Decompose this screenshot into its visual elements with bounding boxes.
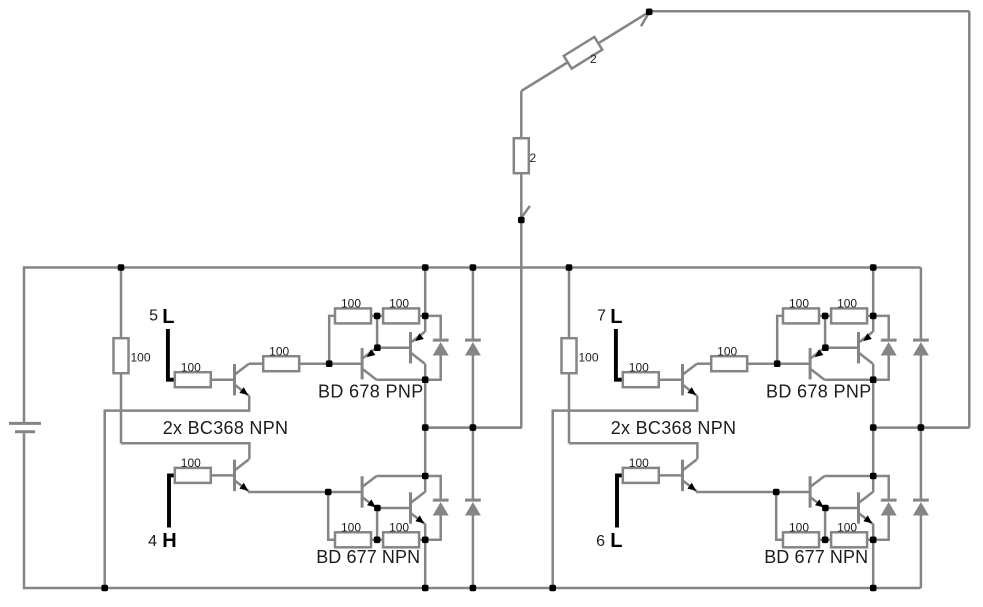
transistor Q1 BC368 NPN top driver right bbox=[683, 364, 697, 396]
wire output vertical mid right bbox=[872, 380, 875, 476]
wire input resistor to Q1 base left bbox=[211, 378, 233, 381]
wire diode D4 line upper right bbox=[920, 428, 923, 499]
node R-R junction BD678 left bbox=[374, 313, 381, 320]
wire BD677 resistor joint right bbox=[819, 539, 831, 542]
svg-text:L: L bbox=[610, 530, 622, 552]
wire diode D2 line lower right bbox=[920, 355, 923, 427]
transistor Q2 BC368 NPN bottom driver right bbox=[683, 459, 697, 491]
wire output mid line right block bbox=[873, 426, 969, 429]
wire Q1 emitter return right bbox=[553, 396, 698, 589]
wire BD678 base node riser right bbox=[777, 316, 783, 364]
wire motor branch vertical upper bbox=[520, 91, 523, 138]
diode D1 right bbox=[881, 340, 897, 355]
wire QD collector riser right bbox=[872, 476, 875, 492]
transistor QC BD677 NPN driver left bbox=[362, 476, 376, 508]
node QB emitter junction right bbox=[870, 313, 877, 320]
wire QA base wire right bbox=[777, 362, 809, 365]
node bottom rail output junction left bbox=[422, 585, 429, 592]
wire output vertical bottom left bbox=[424, 540, 427, 588]
diode D1 left bbox=[433, 340, 449, 355]
svg-text:BD 677 NPN: BD 677 NPN bbox=[764, 547, 868, 567]
wire diode D1 bottom link left bbox=[425, 355, 441, 379]
svg-text:100: 100 bbox=[579, 350, 599, 364]
wire left bias to Q2 collector bbox=[121, 443, 249, 459]
battery V1 positive plate bbox=[9, 422, 41, 425]
wire BD678 right resistor to rail line left bbox=[419, 315, 425, 318]
wire diode D1 bottom link right bbox=[873, 355, 889, 379]
resistor 100 input top right bbox=[623, 361, 659, 388]
node motor branch lower bbox=[518, 217, 525, 224]
svg-text:H: H bbox=[162, 530, 176, 552]
wire Q2 emitter to BD677 base node right bbox=[697, 490, 776, 493]
wire battery bottom lead bbox=[23, 433, 26, 589]
resistor 100 input top left bbox=[175, 361, 211, 388]
wire diode D4 line lower left bbox=[472, 515, 475, 588]
wire BD677 mid node riser left bbox=[376, 508, 379, 540]
wire diode D3 bottom link left bbox=[425, 515, 441, 540]
node QC collector junction right bbox=[870, 473, 877, 480]
diode D3 right bbox=[881, 500, 897, 515]
transistor Q2 BC368 NPN bottom driver left bbox=[235, 459, 249, 491]
wire motor branch right vertical bbox=[968, 11, 971, 427]
node QC collector junction left bbox=[422, 473, 429, 480]
wire diode D3 top link right bbox=[873, 476, 889, 499]
input stub bottom left bbox=[169, 475, 176, 527]
wire battery top lead bbox=[23, 266, 26, 422]
diode D4 right bbox=[913, 500, 929, 515]
resistor 2 (diagonal, motor branch) bbox=[564, 37, 603, 69]
node motor branch top bbox=[646, 9, 653, 16]
node bottom rail emitter-return junction left bbox=[101, 585, 108, 592]
node R-R junction BD678 right bbox=[822, 313, 829, 320]
wire diode D2 line upper right bbox=[920, 268, 923, 339]
svg-text:100: 100 bbox=[389, 521, 409, 535]
resistor 100 BD678 right right bbox=[831, 297, 867, 324]
wire bottom supply rail bbox=[24, 587, 921, 590]
node rail-bias junction right bbox=[566, 264, 573, 271]
svg-text:6: 6 bbox=[596, 533, 605, 550]
svg-text:2: 2 bbox=[530, 151, 537, 165]
wire output vertical mid left bbox=[424, 380, 427, 476]
resistor 100 BD678 left left bbox=[335, 297, 371, 324]
transistor QB BD678 PNP output right bbox=[859, 332, 873, 364]
diode D2 left bbox=[465, 340, 481, 355]
resistor 100 bias left bbox=[114, 338, 151, 373]
wire BD677 resistor joint left bbox=[371, 539, 383, 542]
wire QA collector run right bbox=[825, 378, 874, 381]
resistor 100 bias right bbox=[562, 338, 599, 373]
battery V1 negative plate bbox=[15, 430, 35, 433]
wire BD678 right resistor to rail line right bbox=[867, 315, 873, 318]
node QC base junction left bbox=[325, 489, 332, 496]
resistor 100 collector right bbox=[711, 345, 747, 372]
svg-text:100: 100 bbox=[389, 297, 409, 311]
wire input resistor to Q1 base right bbox=[659, 378, 681, 381]
wire QA collector run left bbox=[377, 378, 426, 381]
wire BD677 base node drop left bbox=[328, 492, 335, 540]
wire Q1 collector link right bbox=[697, 362, 711, 365]
svg-text:4: 4 bbox=[148, 533, 157, 550]
wire QC base wire left bbox=[328, 491, 361, 494]
node rail-output junction right bbox=[870, 264, 877, 271]
resistor 100 collector left bbox=[263, 345, 299, 372]
resistor 100 input bottom left bbox=[175, 456, 211, 483]
wire left rail to bias resistor bbox=[120, 268, 123, 339]
wire top horizontal to motor branch bbox=[649, 10, 969, 13]
wire diode D3 bottom link right bbox=[873, 515, 889, 540]
svg-text:100: 100 bbox=[717, 345, 737, 359]
wire QD base wire right bbox=[825, 507, 857, 510]
wire BD677 base node drop right bbox=[776, 492, 783, 540]
resistor 100 BD677 right right bbox=[831, 521, 867, 548]
svg-text:5: 5 bbox=[149, 308, 158, 325]
resistor 100 input bottom right bbox=[623, 456, 659, 483]
svg-text:L: L bbox=[610, 306, 622, 328]
wire QD collector riser left bbox=[424, 476, 427, 492]
wire diode D2 line lower left bbox=[472, 355, 475, 427]
wire output mid line left block bbox=[425, 426, 522, 429]
node R-R junction BD677 right bbox=[822, 537, 829, 544]
node QC emitter junction right bbox=[822, 505, 829, 512]
svg-text:2x BC368 NPN: 2x BC368 NPN bbox=[611, 418, 737, 438]
transistor QA BD678 PNP driver right bbox=[810, 348, 824, 380]
wire Q1 collector link left bbox=[249, 362, 263, 365]
switch lever at lower node bbox=[522, 206, 530, 217]
wire top supply rail bbox=[24, 266, 921, 269]
wire motor branch vertical middle bbox=[520, 173, 523, 220]
wire BD677 right resistor to node left bbox=[419, 539, 425, 542]
wire QB emitter riser right bbox=[872, 316, 875, 332]
node QA emitter junction right bbox=[822, 344, 829, 351]
svg-text:100: 100 bbox=[789, 297, 809, 311]
wire output vertical rail to QB right bbox=[872, 268, 875, 316]
wire QB base wire left bbox=[377, 346, 409, 349]
wire BD678 resistor joint right bbox=[819, 315, 831, 318]
diode D4 left bbox=[465, 500, 481, 515]
wire input resistor to Q2 base right bbox=[659, 474, 681, 477]
wire output vertical rail to QB left bbox=[424, 268, 427, 316]
resistor 2 (vertical, motor branch) bbox=[514, 138, 529, 173]
node QC emitter junction left bbox=[374, 505, 381, 512]
node bottom rail output junction right bbox=[870, 585, 877, 592]
wire BD678 mid node to QA emitter node left bbox=[376, 316, 379, 348]
svg-text:100: 100 bbox=[629, 361, 649, 375]
wire QB collector drop left bbox=[424, 364, 427, 380]
node QA emitter junction left bbox=[374, 344, 381, 351]
resistor 100 BD678 left right bbox=[783, 297, 819, 324]
wire diode D4 line lower right bbox=[920, 515, 923, 588]
wire right bias resistor down bbox=[568, 373, 571, 444]
diode D2 right bbox=[913, 340, 929, 355]
wire QA base wire left bbox=[329, 362, 361, 365]
svg-text:BD 677 NPN: BD 677 NPN bbox=[316, 547, 420, 567]
wire motor branch vertical lower bbox=[520, 220, 523, 428]
svg-text:100: 100 bbox=[629, 456, 649, 470]
svg-text:100: 100 bbox=[837, 521, 857, 535]
switch lever at top node bbox=[641, 14, 648, 26]
svg-text:100: 100 bbox=[341, 297, 361, 311]
node QA base junction left bbox=[326, 360, 333, 367]
transistor Q1 BC368 NPN top driver left bbox=[235, 364, 249, 396]
node QD emitter junction left bbox=[422, 537, 429, 544]
input stub top right bbox=[616, 329, 624, 380]
svg-text:100: 100 bbox=[131, 350, 151, 364]
wire BD678 base node riser left bbox=[329, 316, 335, 364]
wire BD678 mid node to QA emitter node right bbox=[824, 316, 827, 348]
svg-text:L: L bbox=[162, 306, 174, 328]
svg-text:100: 100 bbox=[269, 345, 289, 359]
svg-text:2: 2 bbox=[590, 52, 597, 66]
svg-text:7: 7 bbox=[597, 308, 606, 325]
wire diode D4 line upper left bbox=[472, 428, 475, 499]
wire input resistor to Q2 base left bbox=[211, 474, 233, 477]
wire QB collector drop right bbox=[872, 364, 875, 380]
wire diode D2 line upper left bbox=[472, 268, 475, 339]
svg-text:100: 100 bbox=[181, 456, 201, 470]
node diode line mid junction right bbox=[918, 424, 925, 431]
wire QB base wire right bbox=[825, 346, 857, 349]
node QB emitter junction left bbox=[422, 313, 429, 320]
node QC base junction right bbox=[773, 489, 780, 496]
wire collector resistor to node left bbox=[300, 362, 330, 365]
wire motor branch diagonal bbox=[521, 12, 649, 91]
wire QC collector run left bbox=[377, 475, 426, 478]
wire Q2 emitter to BD677 base node left bbox=[249, 490, 328, 493]
resistor 100 BD677 left left bbox=[335, 521, 371, 548]
transistor QC BD677 NPN driver right bbox=[810, 476, 824, 508]
diode D3 left bbox=[433, 500, 449, 515]
input stub bottom right bbox=[617, 475, 624, 527]
wire QD base wire left bbox=[377, 507, 409, 510]
wire diode D3 top link left bbox=[425, 476, 441, 499]
wire BD677 mid node riser right bbox=[824, 508, 827, 540]
node bottom rail emitter-return junction right bbox=[549, 585, 556, 592]
node rail-diode junction left bbox=[470, 264, 477, 271]
node QD emitter junction right bbox=[870, 537, 877, 544]
resistor 100 BD678 right left bbox=[383, 297, 419, 324]
wire QD emitter drop left bbox=[424, 524, 427, 540]
transistor QB BD678 PNP output left bbox=[411, 332, 425, 364]
wire right bias to Q2 collector bbox=[569, 443, 697, 459]
transistor QA BD678 PNP driver left bbox=[362, 348, 376, 380]
node diode line mid junction left bbox=[470, 424, 477, 431]
node output mid junction right bbox=[870, 424, 877, 431]
transistor QD BD677 NPN output right bbox=[859, 492, 873, 524]
wire output vertical bottom right bbox=[872, 540, 875, 588]
node rail-output junction left bbox=[422, 264, 429, 271]
node bottom rail diode junction left bbox=[470, 585, 477, 592]
wire BD677 right resistor to node right bbox=[867, 539, 873, 542]
resistor 100 BD677 left right bbox=[783, 521, 819, 548]
wire motor branch right to output bbox=[921, 426, 969, 429]
svg-text:BD 678 PNP: BD 678 PNP bbox=[766, 381, 872, 401]
node QA base junction right bbox=[774, 360, 781, 367]
wire BD678 resistor joint left bbox=[371, 315, 383, 318]
svg-text:100: 100 bbox=[341, 521, 361, 535]
svg-text:BD 678 PNP: BD 678 PNP bbox=[318, 381, 424, 401]
wire QB emitter riser left bbox=[424, 316, 427, 332]
node QB collector junction left bbox=[422, 376, 429, 383]
wire diode D1 top link right bbox=[873, 316, 889, 339]
node rail-bias junction left bbox=[118, 264, 125, 271]
svg-text:100: 100 bbox=[181, 361, 201, 375]
wire diode D1 top link left bbox=[425, 316, 441, 339]
wire collector resistor to node right bbox=[748, 362, 778, 365]
svg-text:2x BC368 NPN: 2x BC368 NPN bbox=[163, 418, 289, 438]
transistor QD BD677 NPN output left bbox=[411, 492, 425, 524]
wire Q1 emitter return left bbox=[105, 396, 250, 589]
svg-text:100: 100 bbox=[789, 521, 809, 535]
resistor 100 BD677 right left bbox=[383, 521, 419, 548]
wire QD emitter drop right bbox=[872, 524, 875, 540]
node output mid junction left bbox=[422, 424, 429, 431]
input stub top left bbox=[168, 329, 176, 380]
wire left bias resistor down bbox=[120, 373, 123, 444]
wire motor branch to left output bbox=[425, 426, 522, 429]
node QB collector junction right bbox=[870, 376, 877, 383]
wire right rail to bias resistor bbox=[568, 268, 571, 339]
svg-text:100: 100 bbox=[837, 297, 857, 311]
wire QC base wire right bbox=[776, 491, 809, 494]
wire QC collector run right bbox=[825, 475, 874, 478]
node R-R junction BD677 left bbox=[374, 537, 381, 544]
